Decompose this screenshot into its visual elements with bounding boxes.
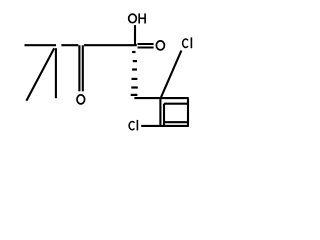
wire: ring outer left edge — [159, 98, 161, 126]
wire: ketone C=O double bond (right line) — [82, 45, 84, 91]
atom label O (ketone oxygen) — [77, 95, 85, 104]
wire: carboxyl C=O double bond (top line) — [138, 43, 154, 45]
wire: tert-butyl horizontal methyl bond — [25, 44, 57, 46]
wire: C-Cl diagonal bond — [161, 51, 182, 98]
wire: ring outer right edge — [187, 98, 189, 126]
wire: C-OH bond — [134, 25, 136, 45]
wire: inner ring bottom edge — [164, 121, 188, 123]
atom label Cl (top chlorine), l stem — [190, 37, 192, 48]
wire: inner ring left edge — [163, 104, 165, 126]
wire: ketone C=O double bond (left line) — [78, 45, 80, 91]
wire: main chain C-C bond (ketone carbon to acid carbon) — [84, 44, 137, 46]
wire: bond from stereo carbon to ring / ring top edge — [134, 97, 188, 99]
wire: tert-butyl vertical methyl bond — [55, 48, 57, 98]
atom label Cl (bottom chlorine), C arc — [129, 122, 134, 130]
wire: hashed stereo bond (6 dashes) — [131, 52, 138, 95]
wire: main chain C-C bond (tBu to ketone carbon) — [61, 44, 78, 46]
wire: carboxyl C=O double bond (bottom line) — [138, 46, 154, 48]
atom label OH (hydroxyl oxygen) — [129, 14, 137, 23]
wire: inner ring top edge — [164, 103, 188, 105]
atom label O (carboxyl oxygen) — [156, 41, 164, 50]
atom label Cl (bottom chlorine), l stem — [136, 120, 138, 130]
wire: tert-butyl diagonal methyl bond — [26, 48, 54, 101]
wire: ring bottom edge + bond to bottom Cl — [141, 125, 189, 127]
atom label Cl (top chlorine), C arc — [183, 39, 188, 47]
atom label OH (hydrogen), H stems and crossbar — [139, 13, 146, 23]
